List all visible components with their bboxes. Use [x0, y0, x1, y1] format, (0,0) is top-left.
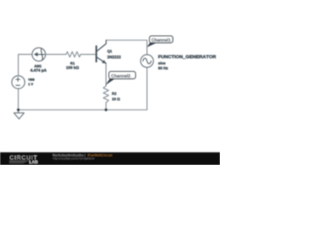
logo lines and LAB [9, 161, 28, 163]
logo CIRCUIT [10, 155, 37, 159]
junction node ground [17, 108, 20, 111]
probe flag Channel1 text [152, 38, 171, 41]
label sine [158, 62, 165, 65]
probe flag Channel1 pointer [147, 43, 157, 48]
probe flag Channel1 box [150, 36, 173, 43]
wire emitter to R2 [105, 63, 107, 86]
wire ammeter to R1 [46, 53, 67, 55]
transistor Q1 emitter [97, 57, 106, 63]
Q1 emitter arrowhead [102, 60, 107, 64]
watermark text line2 [53, 157, 94, 160]
label AM1 [34, 65, 41, 67]
ground symbol [17, 110, 19, 113]
label 60 Hz [158, 67, 168, 70]
function generator circle [141, 55, 154, 68]
label FUNCTION_GENERATOR [158, 55, 216, 59]
label R2 [112, 92, 116, 95]
label Q1 type [107, 56, 120, 59]
watermark bar [0, 152, 220, 165]
function generator sine [143, 58, 151, 64]
transistor Q1 base bar [95, 46, 97, 62]
wire R1 to Q1 base [81, 53, 96, 55]
watermark text line1 orange [88, 154, 112, 156]
resistor R1 [66, 52, 81, 57]
label VBB [28, 79, 34, 81]
watermark text line1 [53, 154, 85, 157]
wire bottom net [18, 67, 147, 109]
wire VBB bottom [17, 89, 19, 110]
probe flag Channel2 pointer [105, 79, 115, 86]
label R1 [71, 62, 75, 64]
ammeter AM1 circle [32, 48, 45, 61]
transistor Q1 collector [97, 40, 106, 51]
wire VBB to ammeter [18, 54, 32, 75]
wire collector to function generator [106, 40, 147, 54]
VBB plus [16, 77, 20, 81]
label VBB value [28, 83, 33, 85]
probe flag Channel2 box [109, 72, 136, 79]
ammeter needle curve [41, 49, 42, 61]
wire R2 to bottom net [105, 103, 107, 110]
label Q1 [107, 50, 112, 53]
junction node R2 bottom [105, 108, 108, 111]
voltage source VBB circle [12, 76, 25, 89]
label R1 value [66, 66, 78, 69]
resistor R2 [103, 86, 108, 103]
label R2 value [112, 98, 120, 101]
ammeter arrow shaft [38, 53, 45, 55]
label AM1 value [30, 69, 46, 73]
probe flag Channel2 text [111, 74, 130, 77]
VBB minus [16, 84, 20, 86]
ammeter arrowhead [34, 52, 38, 56]
